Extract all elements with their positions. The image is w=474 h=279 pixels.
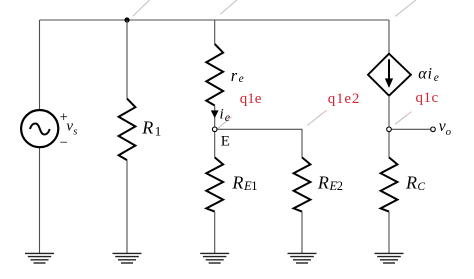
dependent current source alpha-ie diamond xyxy=(368,54,411,96)
svg-text:o: o xyxy=(446,127,451,138)
terminal vo open circle xyxy=(431,127,436,132)
wire top supply rail xyxy=(40,19,390,21)
svg-text:q1c: q1c xyxy=(416,90,439,106)
node junction dot on top rail xyxy=(124,17,129,22)
svg-text:e: e xyxy=(239,73,244,85)
wire R1 branch upper xyxy=(126,20,128,99)
resistor R1 zigzag xyxy=(119,99,136,161)
resistor re zigzag xyxy=(206,44,223,106)
wire current source to node C xyxy=(388,96,390,158)
wire RE1 branch lower xyxy=(214,212,216,254)
wire re to node E xyxy=(214,106,216,130)
svg-text:i: i xyxy=(220,107,224,123)
svg-text:1: 1 xyxy=(251,179,257,193)
wire re branch upper xyxy=(214,20,216,44)
svg-text:C: C xyxy=(417,181,425,193)
svg-text:R: R xyxy=(231,172,243,192)
resistor RE2 zigzag xyxy=(294,157,311,211)
svg-text:α: α xyxy=(418,66,427,83)
svg-text:1: 1 xyxy=(155,123,162,138)
resistor RC zigzag xyxy=(381,157,398,211)
resistor RE1 zigzag xyxy=(206,157,223,211)
wire output stub to vo xyxy=(389,128,431,130)
svg-text:e: e xyxy=(225,110,231,124)
wire RE2 branch lower xyxy=(301,212,303,254)
wire RC branch lower xyxy=(388,212,390,254)
voltage source vs circle xyxy=(21,110,58,147)
svg-text:r: r xyxy=(231,66,238,85)
wire R1 branch lower xyxy=(126,160,128,253)
svg-text:i: i xyxy=(428,66,432,83)
ground under RE1 xyxy=(200,252,229,254)
leader line q1e to node E xyxy=(216,120,228,130)
leader line at re top junction xyxy=(220,0,237,14)
svg-text:q1e2: q1e2 xyxy=(328,91,360,107)
leader line q1c to node C xyxy=(395,115,407,125)
wire vs branch upper xyxy=(39,20,41,110)
leader line at top junction xyxy=(133,0,150,16)
svg-text:s: s xyxy=(73,126,77,137)
svg-text:v: v xyxy=(439,118,446,135)
current source internal arrow xyxy=(388,59,390,79)
leader line q1e2 to RE2 corner xyxy=(307,114,322,126)
wire node E to RE2 branch xyxy=(215,129,302,157)
voltage source vs sine symbol xyxy=(30,124,50,135)
svg-text:E: E xyxy=(221,133,230,149)
svg-text:R: R xyxy=(141,117,153,137)
svg-text:e: e xyxy=(434,72,439,84)
node C open circle xyxy=(387,127,392,132)
ground under R1 xyxy=(113,252,142,254)
ground under RC xyxy=(375,252,404,254)
node E open circle xyxy=(212,127,217,132)
current arrow ie xyxy=(211,111,218,118)
ground under RE2 xyxy=(288,252,317,254)
wire current-source branch upper xyxy=(388,20,390,54)
svg-text:R: R xyxy=(317,172,329,192)
svg-text:−: − xyxy=(60,135,68,151)
svg-text:q1e: q1e xyxy=(240,91,262,107)
wire vs branch lower xyxy=(39,147,41,253)
svg-text:2: 2 xyxy=(337,179,343,193)
svg-text:R: R xyxy=(405,172,417,192)
wire RE1 branch upper xyxy=(214,129,216,157)
leader line at top right corner xyxy=(395,0,416,16)
ground under vs xyxy=(25,252,54,254)
